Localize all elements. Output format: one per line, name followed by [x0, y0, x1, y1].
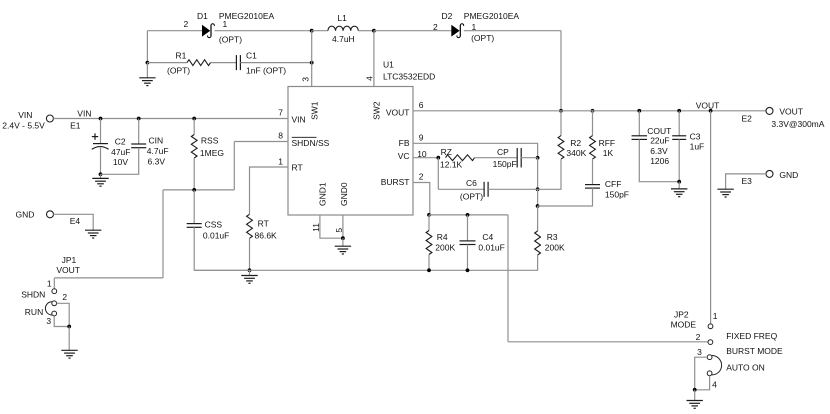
- wire bottom ground rail: [194, 269, 538, 271]
- value 1MEG of RSS: [200, 148, 224, 158]
- connector JP1 pin 3: [52, 311, 57, 316]
- wire FB node down to CFF row: [537, 189, 539, 206]
- value 4.7uF of CIN: [147, 146, 169, 156]
- svg-text:CSS: CSS: [205, 220, 223, 230]
- capacitor COUT: [632, 136, 648, 140]
- wire SW1 pin 3 lead: [311, 31, 313, 87]
- wire junction to ground G1: [146, 63, 148, 78]
- wire C3 top lead: [678, 111, 680, 136]
- capacitor CSS: [187, 224, 202, 228]
- shunt arc of JP2: [712, 356, 722, 375]
- pin label VIN of U1: [292, 114, 306, 124]
- node output cap ground junction: [677, 180, 681, 184]
- label SHDN of JP1: [21, 289, 45, 299]
- wire output cap ground stub: [678, 182, 680, 189]
- wire C3 bottom lead: [678, 139, 680, 181]
- node VOUT R2 junction: [559, 109, 563, 113]
- wire RT pin 1 lead: [250, 167, 289, 214]
- diode D1: [202, 24, 214, 38]
- svg-text:0.01uF: 0.01uF: [203, 230, 229, 240]
- pin 10 label of U1: [417, 149, 427, 159]
- svg-text:R2: R2: [570, 138, 581, 148]
- terminal E2: [766, 107, 773, 114]
- node JP2 ground junction: [693, 388, 697, 392]
- wire RFF top lead: [592, 111, 594, 136]
- wire SHDN to JP1: [54, 277, 163, 279]
- connector JP1 pin 1: [52, 289, 57, 294]
- wire SW1 node to L1: [312, 30, 328, 32]
- ground G7: [717, 189, 733, 197]
- node BURST C4 junction: [466, 213, 470, 217]
- label R3: [547, 232, 558, 242]
- pin 3 label of JP2: [697, 347, 702, 357]
- svg-text:PMEG2010EA: PMEG2010EA: [219, 11, 275, 21]
- wire JP1 pin 3 to ground junction: [54, 316, 69, 327]
- svg-text:RSS: RSS: [201, 135, 219, 145]
- wire JP1 ground stem: [68, 327, 70, 351]
- svg-text:1MEG: 1MEG: [200, 148, 224, 158]
- wire MODE select vertical: [507, 215, 509, 342]
- pin label VC of U1: [398, 151, 410, 161]
- svg-text:VOUT: VOUT: [696, 101, 720, 111]
- svg-text:RZ: RZ: [441, 147, 452, 157]
- node FB C6 junction: [536, 187, 540, 191]
- node VIN RSS junction: [192, 117, 196, 121]
- svg-text:10: 10: [417, 149, 427, 159]
- svg-text:1206: 1206: [650, 156, 669, 166]
- svg-text:R3: R3: [547, 232, 558, 242]
- pin 11 label of U1: [311, 223, 321, 232]
- svg-text:E1: E1: [70, 121, 81, 131]
- svg-text:4: 4: [712, 379, 717, 389]
- svg-text:1K: 1K: [603, 148, 614, 158]
- wire VOUT to JP2 pin 1: [710, 111, 712, 324]
- wire R4 bottom lead: [428, 255, 430, 271]
- net label VOUT: [696, 101, 720, 111]
- svg-text:3.3V@300mA: 3.3V@300mA: [771, 119, 824, 129]
- value 6.3V of CIN: [148, 156, 166, 166]
- pin 1 label of JP1: [47, 278, 52, 288]
- svg-text:2: 2: [419, 172, 424, 182]
- svg-text:SHDN/SS: SHDN/SS: [292, 138, 330, 148]
- wire C6 branch down: [437, 158, 439, 190]
- capacitor C6: [484, 182, 488, 197]
- label R4: [437, 232, 448, 242]
- pin 7 label of U1: [278, 108, 283, 118]
- svg-text:3: 3: [46, 316, 51, 326]
- svg-text:RT: RT: [258, 218, 269, 228]
- value 150pF of CFF: [605, 189, 629, 199]
- svg-text:3: 3: [697, 347, 702, 357]
- pin 1 label of D1: [223, 19, 228, 29]
- wire U1 ground stub: [342, 238, 344, 246]
- pin 2 label of D2: [433, 22, 438, 32]
- wire junction to ground G2: [100, 174, 102, 178]
- svg-text:22uF: 22uF: [650, 136, 669, 146]
- svg-text:VIN: VIN: [18, 110, 32, 120]
- wire CFF bottom lead: [538, 188, 593, 206]
- label JP2: [674, 310, 689, 320]
- label CIN: [149, 135, 164, 145]
- wire R4 top lead: [428, 215, 430, 231]
- label C3: [690, 132, 701, 142]
- svg-text:SHDN: SHDN: [21, 289, 45, 299]
- svg-text:JP2: JP2: [674, 310, 689, 320]
- label VIN of input terminal: [18, 110, 32, 120]
- value 1uF of C3: [690, 142, 705, 152]
- svg-text:200K: 200K: [545, 243, 565, 253]
- capacitor CP: [517, 148, 521, 168]
- pin 4 label of JP2: [712, 379, 717, 389]
- value 0.01uF of CSS: [203, 230, 229, 240]
- node VOUT COUT junction: [637, 109, 641, 113]
- wire R3 bottom lead: [537, 255, 539, 270]
- svg-text:GND0: GND0: [339, 182, 349, 206]
- svg-text:11: 11: [311, 223, 321, 232]
- wire top-left vertical: [146, 31, 148, 63]
- wire top rail left segment: [147, 30, 202, 32]
- value PMEG2010EA of D2: [464, 11, 520, 21]
- ground G2: [92, 178, 108, 186]
- svg-text:BURST: BURST: [381, 177, 410, 187]
- svg-text:E2: E2: [742, 114, 753, 124]
- wire C2 bottom lead: [100, 148, 102, 175]
- svg-text:8: 8: [278, 131, 283, 141]
- svg-text:47uF: 47uF: [111, 147, 130, 157]
- wire JP2 ground stem: [694, 390, 696, 401]
- svg-text:D2: D2: [442, 11, 453, 21]
- wire RSS top lead: [193, 119, 195, 135]
- wire FB node down to C6 row: [537, 158, 539, 190]
- label E2: [742, 114, 753, 124]
- svg-text:4.7uF: 4.7uF: [147, 146, 169, 156]
- label CP: [497, 147, 509, 157]
- node VC junction: [436, 156, 440, 160]
- svg-text:150pF: 150pF: [605, 189, 629, 199]
- label BURST MODE of JP2: [726, 346, 783, 356]
- net label VIN: [77, 109, 91, 119]
- resistor RFF: [590, 136, 596, 159]
- resistor RT: [247, 214, 253, 238]
- label JP1: [62, 255, 77, 265]
- node VIN C2 junction: [99, 117, 103, 121]
- wire JP1 pin1 stub: [53, 278, 55, 289]
- pin 3 label of JP1: [46, 316, 51, 326]
- label RFF: [599, 138, 616, 148]
- pin label GND1 of U1: [317, 182, 327, 206]
- value 1nF (OPT) of C1: [246, 66, 286, 76]
- node RT ground junction: [248, 268, 252, 272]
- node R4 ground junction: [427, 268, 431, 272]
- wire RZ to CP: [475, 157, 517, 159]
- node C4 ground junction: [466, 268, 470, 272]
- connector JP2 pin 2: [708, 340, 713, 345]
- ground G6: [671, 189, 687, 197]
- label C1: [246, 50, 257, 60]
- wire BURST node row: [429, 214, 508, 216]
- svg-text:340K: 340K: [566, 148, 586, 158]
- label R2: [570, 138, 581, 148]
- svg-text:1: 1: [47, 278, 52, 288]
- wire RT bottom lead: [249, 238, 251, 270]
- wire JP2 pin 4 to ground junction: [695, 376, 710, 390]
- svg-text:3: 3: [300, 77, 310, 82]
- svg-text:L1: L1: [337, 13, 347, 23]
- pin label SW2 of U1: [371, 101, 381, 120]
- label E3: [742, 176, 753, 186]
- svg-text:9: 9: [419, 132, 424, 142]
- svg-text:RT: RT: [292, 162, 303, 172]
- label CSS: [205, 220, 223, 230]
- value 6.3V of COUT: [650, 146, 668, 156]
- node FB RZ-CP junction: [536, 156, 540, 160]
- svg-text:6.3V: 6.3V: [148, 156, 166, 166]
- value 1206 of COUT: [650, 156, 669, 166]
- value 12.1K of RZ: [440, 160, 463, 170]
- label E1: [70, 121, 81, 131]
- resistor R2: [558, 136, 564, 159]
- svg-text:(OPT): (OPT): [460, 192, 483, 202]
- svg-text:(OPT): (OPT): [471, 33, 494, 43]
- svg-text:150pF: 150pF: [493, 159, 517, 169]
- pin 6 label of U1: [419, 100, 424, 110]
- node U1 ground junction: [341, 236, 345, 240]
- label RT: [258, 218, 269, 228]
- op-amp U1 LTC3532EDD box: [288, 87, 413, 216]
- resistor RSS: [191, 135, 197, 158]
- wire SHDN horizontal to left: [163, 189, 234, 191]
- svg-text:BURST MODE: BURST MODE: [726, 346, 783, 356]
- wire FB pin 9 lead: [413, 143, 538, 158]
- svg-text:VC: VC: [398, 151, 410, 161]
- svg-text:12.1K: 12.1K: [440, 160, 463, 170]
- svg-text:AUTO ON: AUTO ON: [726, 362, 765, 372]
- node VOUT RFF junction: [591, 109, 595, 113]
- wire D2 cathode to right corner: [464, 30, 561, 32]
- svg-text:10V: 10V: [113, 157, 128, 167]
- value 1K of RFF: [603, 148, 614, 158]
- pin 4 label of U1: [365, 76, 375, 81]
- svg-text:6.3V: 6.3V: [650, 146, 668, 156]
- label AUTO ON of JP2: [726, 362, 765, 372]
- svg-text:PMEG2010EA: PMEG2010EA: [464, 11, 520, 21]
- value 150pF of CP: [493, 159, 517, 169]
- pin label SW1 of U1: [309, 101, 319, 120]
- svg-text:VIN: VIN: [77, 109, 91, 119]
- wire RFF bottom lead: [592, 159, 594, 185]
- svg-text:5: 5: [334, 228, 344, 233]
- wire SW2 pin 4 lead: [373, 31, 375, 87]
- pin 1 label of U1: [278, 156, 283, 166]
- svg-text:R1: R1: [176, 51, 187, 61]
- svg-text:LTC3532EDD: LTC3532EDD: [383, 71, 435, 81]
- svg-text:RFF: RFF: [599, 138, 616, 148]
- svg-text:GND: GND: [16, 209, 35, 219]
- svg-text:VOUT: VOUT: [779, 107, 803, 117]
- svg-text:D1: D1: [197, 11, 208, 21]
- value 86.6K of RT: [255, 230, 278, 240]
- node BURST R4 junction: [427, 213, 431, 217]
- terminal E4: [47, 211, 54, 218]
- svg-text:FIXED FREQ: FIXED FREQ: [726, 331, 777, 341]
- svg-text:1: 1: [713, 311, 718, 321]
- svg-text:JP1: JP1: [62, 255, 77, 265]
- wire L1 to SW2 node: [358, 30, 374, 32]
- label L1: [337, 13, 347, 23]
- svg-text:VIN: VIN: [292, 114, 306, 124]
- svg-text:GND: GND: [779, 170, 798, 180]
- value 2.4V - 5.5V of input: [2, 121, 45, 131]
- value 3.3V@300mA of output: [771, 119, 824, 129]
- svg-text:86.6K: 86.6K: [255, 230, 278, 240]
- svg-text:C4: C4: [482, 232, 493, 242]
- wire E3 to ground: [726, 174, 767, 189]
- label GND of output terminal: [779, 170, 798, 180]
- svg-text:4.7uH: 4.7uH: [332, 34, 355, 44]
- value VOUT of JP1: [56, 265, 80, 275]
- label E4: [70, 216, 81, 226]
- capacitor C4: [460, 241, 476, 245]
- terminal E1: [46, 115, 53, 122]
- pin label SHDN/SS of U1: [292, 137, 330, 148]
- pin 2 label of D1: [184, 19, 189, 29]
- ground G8: [687, 401, 703, 409]
- value (OPT) of D2: [471, 33, 494, 43]
- ground G5: [61, 350, 77, 358]
- node SW1 snubber junction: [310, 61, 314, 65]
- capacitor C1: [236, 55, 240, 70]
- svg-text:VOUT: VOUT: [56, 265, 80, 275]
- svg-text:(OPT): (OPT): [219, 34, 242, 44]
- svg-text:2.4V - 5.5V: 2.4V - 5.5V: [2, 121, 45, 131]
- pin 8 label of U1: [278, 131, 283, 141]
- node VIN CIN junction: [137, 117, 141, 121]
- value LTC3532EDD of U1: [383, 71, 435, 81]
- value (OPT) of C6: [460, 192, 483, 202]
- terminal E3: [766, 170, 773, 177]
- wire C6 right lead: [488, 188, 537, 190]
- wire C2 top lead: [100, 119, 102, 144]
- svg-text:R4: R4: [437, 232, 448, 242]
- node R1 row left junction: [146, 61, 150, 65]
- value 340K of R2: [566, 148, 586, 158]
- svg-text:4: 4: [365, 76, 375, 81]
- wire C6 left lead: [438, 188, 484, 190]
- pin label FB of U1: [399, 138, 410, 148]
- svg-text:E4: E4: [70, 216, 81, 226]
- ground G3: [335, 246, 351, 254]
- svg-text:2: 2: [696, 332, 701, 342]
- wire COUT bottom lead: [639, 139, 679, 181]
- wire COUT top lead: [638, 111, 640, 136]
- pin label RT of U1: [292, 162, 303, 172]
- wire CP to FB node: [521, 157, 538, 159]
- svg-text:FB: FB: [399, 138, 410, 148]
- wire CIN bottom lead: [101, 148, 139, 175]
- value (OPT) of R1: [167, 66, 190, 76]
- shunt arc of JP1: [45, 302, 52, 315]
- label U1: [383, 59, 394, 69]
- wire C4 top lead: [467, 215, 469, 241]
- svg-text:6: 6: [419, 100, 424, 110]
- wire C4 bottom lead: [467, 245, 469, 271]
- wire VIN rail: [53, 118, 288, 120]
- wire JP2 pin 3 to ground junction: [695, 357, 708, 390]
- value (OPT) of D1: [219, 34, 242, 44]
- wire R1 to C1: [211, 62, 237, 64]
- label D2: [442, 11, 453, 21]
- wire SHDN pin 8 lead: [234, 141, 288, 143]
- wire D1 cathode to SW1 node: [215, 30, 312, 32]
- label RUN of JP1: [25, 307, 43, 317]
- node JP1 ground junction: [67, 325, 71, 329]
- label GND of input terminal: [16, 209, 35, 219]
- svg-text:2: 2: [433, 22, 438, 32]
- svg-text:C3: C3: [690, 132, 701, 142]
- svg-text:E3: E3: [742, 176, 753, 186]
- svg-text:U1: U1: [383, 59, 394, 69]
- connector JP1 pin 2: [52, 301, 57, 306]
- value 200K of R3: [545, 243, 565, 253]
- pin label GND0 of U1: [339, 182, 349, 206]
- label CFF: [605, 179, 622, 189]
- value 22uF of COUT: [650, 136, 669, 146]
- svg-text:SW2: SW2: [371, 101, 381, 120]
- label C4: [482, 232, 493, 242]
- pin 1 label of JP2: [713, 311, 718, 321]
- svg-text:CFF: CFF: [605, 179, 622, 189]
- svg-text:2: 2: [184, 19, 189, 29]
- wire RT ground stub: [249, 270, 251, 275]
- wire CIN top lead: [138, 119, 140, 145]
- pin 1 label of D2: [472, 22, 477, 32]
- connector JP2 pin 1: [708, 324, 713, 329]
- wire MODE select to JP2 pin 2: [508, 341, 708, 343]
- pin 5 label of U1: [334, 228, 344, 233]
- svg-text:CIN: CIN: [149, 135, 164, 145]
- capacitor C2: [92, 133, 109, 149]
- ground G4: [241, 276, 257, 284]
- label COUT: [647, 126, 671, 136]
- wire SW2 node to D2: [374, 30, 451, 32]
- value 10V of C2: [113, 157, 128, 167]
- svg-text:VOUT: VOUT: [386, 107, 410, 117]
- wire CSS bottom lead: [194, 227, 249, 270]
- svg-text:C6: C6: [466, 178, 477, 188]
- wire R2 bottom lead: [538, 159, 561, 189]
- node SW2 top junction: [372, 29, 376, 33]
- label RZ: [441, 147, 452, 157]
- svg-text:MODE: MODE: [671, 319, 697, 329]
- wire SHDN long vertical: [162, 190, 164, 278]
- wire FB node to R3: [537, 206, 539, 231]
- node RSS CSS SHDN junction: [192, 188, 196, 192]
- capacitor C3: [672, 136, 686, 140]
- value 47uF of C2: [111, 147, 130, 157]
- wire GND0 pin 5 lead: [342, 215, 344, 238]
- value 200K of R4: [435, 243, 455, 253]
- resistor R3: [535, 231, 541, 255]
- pin label BURST of U1: [381, 177, 410, 187]
- pin 2 label of U1: [419, 172, 424, 182]
- value MODE of JP2: [671, 319, 697, 329]
- value PMEG2010EA of D1: [219, 11, 275, 21]
- svg-text:200K: 200K: [435, 243, 455, 253]
- wire VOUT rail: [413, 110, 766, 112]
- svg-text:COUT: COUT: [647, 126, 671, 136]
- svg-text:1uF: 1uF: [690, 142, 705, 152]
- svg-text:SW1: SW1: [309, 101, 319, 120]
